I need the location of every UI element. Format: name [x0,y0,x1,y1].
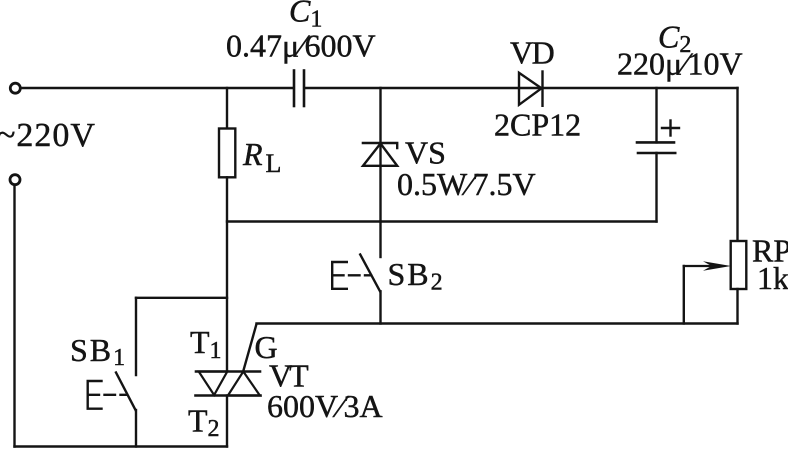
wire top left [21,87,293,89]
wiper arrow of RP [684,261,731,271]
wire SB1 upper [135,298,137,375]
svg-text:220μ⁄10V: 220μ⁄10V [617,46,743,82]
pushbutton SB2 [332,255,380,292]
wire RL top [226,88,228,129]
resistor RL [219,129,235,178]
svg-text:T2: T2 [188,403,220,443]
terminal input top [10,83,20,93]
triac VT [196,372,261,396]
pushbutton SB1 [88,373,136,411]
potentiometer RP [731,241,747,289]
wire bottom [15,445,228,447]
svg-text:2CP12: 2CP12 [494,107,581,143]
zener diode VS [363,143,397,166]
svg-text:1k: 1k [757,260,788,296]
wire RP bottom [736,289,738,324]
svg-text:RL: RL [242,136,281,178]
wire gate horizontal [257,322,738,324]
svg-text:0.47μ⁄600V: 0.47μ⁄600V [226,28,376,64]
svg-text:T1: T1 [190,324,222,364]
svg-text:VD: VD [510,35,554,71]
svg-text:SB1: SB1 [70,332,125,371]
wire left vertical [13,185,15,447]
diode VD [519,72,543,106]
capacitor C2 [637,142,675,153]
wire SB2 bottom [379,291,381,323]
svg-text:0.5W⁄7.5V: 0.5W⁄7.5V [397,166,536,202]
wire SB2 top [379,222,381,258]
wire triac bottom [226,396,228,447]
svg-text:600V⁄3A: 600V⁄3A [267,388,383,424]
wire gate diagonal [243,324,256,371]
wire SB1 branch horizontal [136,297,227,299]
wire VS top [379,88,381,222]
terminal input bottom [10,175,20,185]
svg-text:SB2: SB2 [388,256,443,296]
wire RL bottom to triac [226,177,228,371]
wire C2 top [655,88,657,142]
wire middle horizontal [227,220,657,222]
svg-text:~220V: ~220V [0,117,96,154]
capacitor C1 [294,71,304,107]
wire C2 bottom [655,153,657,222]
wire right vertical [736,88,738,241]
wire wiper vertical [683,266,685,324]
wire SB1 lower [135,410,137,447]
plus sign of C2 [662,121,679,136]
wire top middle [305,87,738,89]
